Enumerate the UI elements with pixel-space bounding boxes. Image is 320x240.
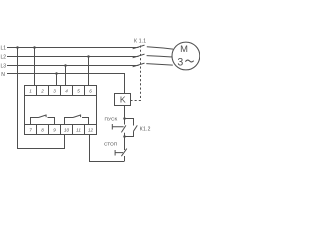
wire L1 down left side to terminal 10: [18, 48, 65, 149]
svg-text:11: 11: [76, 128, 81, 133]
auxiliary contact K1.2: [125, 119, 138, 137]
svg-text:5: 5: [77, 89, 80, 94]
svg-text:M: M: [180, 43, 188, 54]
wire pole 3 to motor: [146, 64, 173, 66]
wire L3: [7, 65, 139, 67]
svg-text:8: 8: [41, 128, 44, 133]
svg-text:6: 6: [89, 89, 92, 94]
contactor K1.1 pole 1 blade: [133, 45, 145, 49]
relay internal contact 7-9: [31, 115, 55, 125]
contactor K1.1 pole 2 blade: [133, 54, 145, 58]
svg-text:7: 7: [29, 128, 32, 133]
relay internal contact 10-12: [65, 115, 89, 125]
svg-text:N: N: [1, 72, 5, 78]
contactor K1.1 pole 3 blade: [133, 63, 145, 67]
svg-text:2: 2: [40, 89, 44, 94]
wire N: [7, 74, 125, 94]
coil K1: [115, 94, 131, 106]
junction node above start button: [123, 117, 126, 120]
svg-text:12: 12: [88, 128, 94, 133]
svg-text:9: 9: [53, 128, 56, 133]
push button ПУСК (NO): [112, 119, 126, 137]
wire N to terminal 3: [56, 74, 58, 86]
wire junction to stop button: [124, 137, 126, 151]
wire L1 to terminal 1: [34, 48, 36, 86]
relay terminal strip top: [25, 86, 97, 96]
wire pole 2 to motor: [147, 56, 173, 57]
junction L3 to terminal 4: [64, 64, 67, 67]
wire L3 to terminal 4: [65, 66, 67, 86]
mechanical link dashed K1.1 to K1: [131, 46, 141, 101]
svg-text:L1: L1: [1, 45, 7, 51]
relay body U1: [25, 96, 97, 125]
label ~: [185, 60, 193, 62]
junction node below start button: [123, 135, 126, 138]
svg-text:3: 3: [177, 56, 183, 68]
svg-text:3: 3: [53, 89, 56, 94]
svg-text:К 1.1: К 1.1: [134, 39, 146, 45]
svg-text:СТОП: СТОП: [104, 142, 118, 148]
svg-text:L2: L2: [1, 54, 7, 60]
junction L1 to terminal 1: [33, 46, 36, 49]
svg-text:1: 1: [29, 89, 32, 94]
wire terminal 12 to stop button: [90, 135, 125, 162]
wire L2 to terminal 6: [88, 57, 90, 86]
svg-text:К1.2: К1.2: [140, 127, 151, 133]
relay terminal strip bottom: [25, 125, 97, 135]
svg-text:L3: L3: [1, 63, 7, 69]
wire pole 1 to motor: [147, 47, 173, 49]
wire K1 coil to junction: [124, 106, 126, 119]
wire L1: [7, 47, 139, 49]
svg-text:K: K: [120, 95, 126, 105]
svg-text:10: 10: [64, 128, 70, 133]
svg-text:4: 4: [65, 89, 68, 94]
svg-text:ПУСК: ПУСК: [105, 117, 118, 123]
motor M1: [172, 42, 200, 70]
wire L2: [7, 56, 139, 58]
junction N to terminal 3: [55, 72, 58, 75]
junction L1 to control loop: [16, 46, 19, 49]
junction L2 to terminal 6: [87, 55, 90, 58]
push button СТОП (NC): [115, 149, 127, 162]
